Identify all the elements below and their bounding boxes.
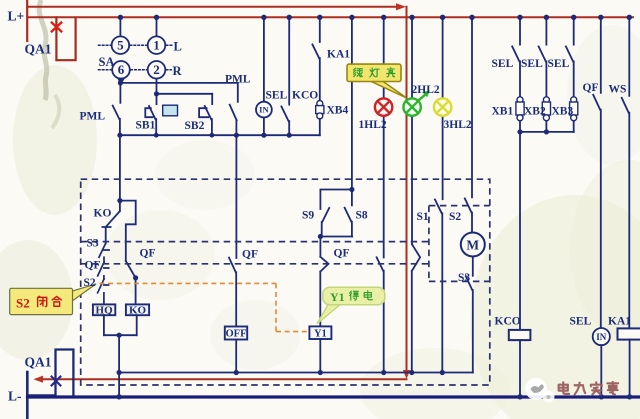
wire HQ/KO join <box>104 334 137 336</box>
contact SEL column2 <box>539 17 547 97</box>
contact PML (left) <box>113 83 121 135</box>
svg-text:S2: S2 <box>84 277 96 289</box>
dashed orange S2-to-Y1 path <box>100 283 309 331</box>
wire red top bus y=17.3 <box>27 16 633 18</box>
svg-text:S2: S2 <box>449 211 461 223</box>
svg-text:L-: L- <box>8 389 22 404</box>
node L- terminal vertical <box>26 372 29 419</box>
indicator IN circle (top SEL) <box>256 102 272 118</box>
svg-text:SEL: SEL <box>570 316 592 328</box>
svg-text:2: 2 <box>153 62 160 77</box>
svg-text:XB3: XB3 <box>552 106 574 118</box>
link XB2 <box>543 97 549 103</box>
svg-text:QF: QF <box>334 248 350 260</box>
svg-text:S9: S9 <box>302 210 314 222</box>
svg-text:S1: S1 <box>417 211 429 223</box>
wire below contact 6 with arrow <box>120 78 122 81</box>
svg-text:SEL: SEL <box>521 58 543 70</box>
contact S9 <box>322 208 330 237</box>
svg-text:L: L <box>174 39 182 53</box>
indicator rectangle between SB1 SB2 <box>163 105 178 116</box>
contact SEL column3 <box>566 17 574 97</box>
contact SEL column1 <box>512 17 520 97</box>
junction dots top bus <box>118 15 123 20</box>
contact S2 (left chain) <box>98 279 109 304</box>
junction dot HQ/KO join <box>117 333 122 338</box>
svg-text:R: R <box>173 64 183 78</box>
svg-text:KCO: KCO <box>292 90 318 102</box>
junction dot QF right branch <box>133 275 138 280</box>
svg-text:Y1: Y1 <box>330 290 345 304</box>
svg-text:S2: S2 <box>16 296 30 311</box>
switch SA contact 6 <box>112 61 130 79</box>
junction dots y=135.2 <box>117 133 122 138</box>
svg-text:IN: IN <box>259 105 269 115</box>
svg-text:6: 6 <box>118 62 125 77</box>
switch SA contact 5 <box>112 36 130 54</box>
wire bottom collector y=372.5 <box>119 372 473 374</box>
watermark logo circle <box>525 378 555 403</box>
junction dots SA row <box>118 80 123 85</box>
wire right parallel branch with jog <box>120 201 136 261</box>
QA1 top X mark <box>52 23 61 32</box>
lamp 1HL2 column <box>383 17 385 257</box>
wire S9/S8 parallel loop top <box>320 190 352 210</box>
contact KO (left chain) <box>102 201 120 244</box>
svg-text:3HL2: 3HL2 <box>444 119 472 131</box>
callout green-lamp-on (ludengliang) <box>347 64 406 98</box>
wire horizontal collector y=135.2 <box>120 134 320 136</box>
lamp 3HL2 / S1 column <box>442 17 444 199</box>
lamp 1HL2 (red) <box>375 98 392 115</box>
svg-text:S8: S8 <box>356 210 368 222</box>
contact QF (Y1 branch, breaker style) <box>320 237 328 327</box>
wire S9/S8 column from bus <box>351 17 353 189</box>
indicator IN circle (bottom SEL) <box>593 328 610 345</box>
svg-text:XB2: XB2 <box>524 106 546 118</box>
link XB3 <box>571 97 577 103</box>
arrowhead down on red vertical <box>403 370 410 379</box>
svg-text:XB4: XB4 <box>327 105 349 117</box>
svg-text:S3: S3 <box>87 238 99 250</box>
junction dots bottom bus <box>116 394 121 399</box>
callout2 text: S2 closed <box>16 296 61 311</box>
svg-text:IN: IN <box>596 332 607 342</box>
dashed trip line B y=263.8 <box>81 263 429 265</box>
svg-text:Y1: Y1 <box>314 328 327 339</box>
breaker QA1 top loop <box>56 17 75 60</box>
box OFF <box>225 327 247 340</box>
box Y1 <box>309 326 331 339</box>
contact QF (left chain) <box>98 262 109 279</box>
green arrow beside 2HL2 <box>418 93 428 102</box>
svg-text:OFF: OFF <box>226 329 247 340</box>
junction dots XB join <box>517 129 522 134</box>
svg-text:KO: KO <box>129 305 147 317</box>
wire main drop to bottom bus <box>118 335 120 396</box>
arrowhead right on top red line <box>396 3 406 10</box>
contact S2 (right) <box>465 198 472 232</box>
box KO (coil) <box>126 304 149 315</box>
wire red bottom return y=379.2 <box>37 378 407 380</box>
wire XB join y=131.9 <box>520 131 574 133</box>
svg-text:1: 1 <box>153 38 160 53</box>
svg-text:SA: SA <box>99 55 115 69</box>
contact KA1 and link XB4 column <box>312 17 319 101</box>
svg-text:QF: QF <box>242 249 258 261</box>
bus L- bottom thick <box>28 395 640 398</box>
wire red long vertical x=406.5 <box>406 7 408 371</box>
wire red top line to arrow <box>27 6 398 8</box>
contact S8 <box>345 190 352 237</box>
svg-text:XB1: XB1 <box>492 106 514 118</box>
contact QF (OFF branch) <box>229 258 236 327</box>
callout Y1-energized (Y1dedian) <box>317 287 385 324</box>
wire SA col1 from bus <box>119 17 121 36</box>
callout1 text: green-lamp-bright glyphs <box>354 68 395 77</box>
svg-text:QF: QF <box>85 260 101 272</box>
contact PML (second) <box>230 83 238 135</box>
watermark text dianli-shishi <box>559 382 618 394</box>
wire entry into dashed box <box>119 135 121 200</box>
link XB1 <box>517 97 523 103</box>
wire SEL/IN column <box>263 17 265 102</box>
pushbutton SB1 <box>145 94 156 135</box>
svg-text:M: M <box>466 238 479 253</box>
junction dot box entry <box>117 198 122 203</box>
svg-text:QF: QF <box>140 248 156 260</box>
wire OFF branch drop <box>235 135 237 258</box>
motor branch column S2 M S3 <box>471 17 473 197</box>
lamp 2HL2 (green) <box>403 98 420 115</box>
box HQ <box>93 304 115 315</box>
link XB4 <box>317 101 323 107</box>
breaker QA1 bottom X mark <box>52 377 61 386</box>
svg-text:KA1: KA1 <box>327 49 350 61</box>
contact S1 <box>435 199 442 372</box>
contact below 1HL2 <box>377 257 384 372</box>
contact S3 (right) <box>466 276 473 372</box>
svg-text:QA1: QA1 <box>25 42 52 57</box>
pushbutton SB2 <box>199 94 212 135</box>
svg-text:1HL2: 1HL2 <box>359 119 387 131</box>
wire below contact 2 <box>156 79 158 94</box>
contact S3 (left chain) <box>99 244 109 263</box>
switch SA contact 1 <box>148 36 166 54</box>
svg-text:PML: PML <box>80 111 106 123</box>
svg-text:WS: WS <box>609 84 627 96</box>
dashed inner box (motor S2/M/S3) <box>429 206 490 282</box>
svg-text:2HL2: 2HL2 <box>412 84 440 96</box>
lamp 2HL2 column <box>411 17 413 244</box>
coil KA1 <box>618 328 640 339</box>
arrowhead left on red return <box>34 376 44 383</box>
contact KCO column <box>281 17 289 135</box>
svg-text:HQ: HQ <box>96 305 114 317</box>
svg-text:QA1: QA1 <box>25 355 52 370</box>
wire SA col2 from bus <box>156 17 158 36</box>
node L+ feeder (red vertical) <box>26 0 28 41</box>
coil KCO <box>509 330 531 340</box>
callout3 text: Y1 energized <box>330 290 372 304</box>
contact QF (right branch) <box>126 261 136 304</box>
junction dots S9/S8 <box>349 187 354 192</box>
wire horizontal y=82.9 (6 to PML2) <box>120 82 237 84</box>
svg-text:SEL: SEL <box>266 90 288 102</box>
svg-text:KCO: KCO <box>495 316 521 328</box>
svg-text:SB1: SB1 <box>136 120 156 132</box>
callout S2-closed (S2bihe) <box>10 284 97 315</box>
breaker QA1 bottom loop <box>28 350 74 396</box>
wire horizontal y=93.8 (2 to SB1/SB2) <box>157 93 213 95</box>
contact WS <box>622 17 630 328</box>
motor M circle <box>461 233 485 257</box>
dashed trip line A y=241.6 <box>81 241 429 243</box>
svg-text:SEL: SEL <box>492 58 514 70</box>
svg-text:QF: QF <box>583 82 599 94</box>
svg-text:S3: S3 <box>458 272 470 284</box>
wire S9/S8 loop bottom <box>320 236 352 238</box>
svg-text:PML: PML <box>225 74 251 86</box>
svg-text:KO: KO <box>94 208 112 220</box>
lamp 3HL2 (yellow) <box>434 98 451 115</box>
junction dots collector y=372.5 <box>117 370 122 375</box>
wire KCO coil drop <box>519 132 521 330</box>
svg-text:KA1: KA1 <box>608 316 631 328</box>
svg-text:SB2: SB2 <box>185 120 205 132</box>
switch SA contact 2 <box>148 61 166 79</box>
svg-text:5: 5 <box>117 38 124 53</box>
svg-text:SEL: SEL <box>548 58 570 70</box>
contact below 2HL2 (breaker style) <box>412 244 420 372</box>
SA dotted linkage lines <box>99 45 172 70</box>
svg-text:L+: L+ <box>8 9 25 24</box>
dashed control box (big) <box>81 179 490 385</box>
contact QF (right area) <box>593 17 601 328</box>
